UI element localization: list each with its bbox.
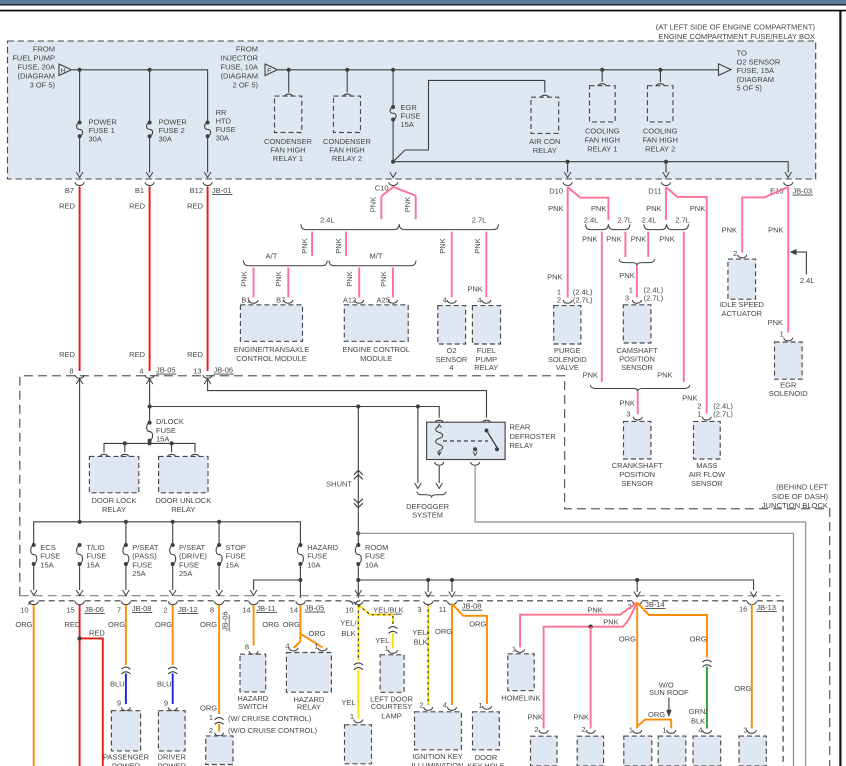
svg-text:1: 1: [629, 286, 633, 295]
svg-text:1: 1: [209, 713, 213, 722]
svg-text:1: 1: [629, 725, 633, 734]
svg-text:JB-08: JB-08: [132, 604, 152, 613]
svg-text:ORG: ORG: [283, 620, 300, 629]
shunt wire: [357, 407, 359, 534]
svg-text:JB-01: JB-01: [212, 186, 232, 195]
svg-text:ORG: ORG: [469, 620, 486, 629]
svg-text:16: 16: [739, 605, 747, 614]
svg-text:ROOM: ROOM: [365, 543, 388, 552]
svg-text:13: 13: [193, 367, 201, 376]
wire RED branch: [80, 638, 103, 766]
svg-text:D10: D10: [549, 187, 563, 196]
svg-text:PNK: PNK: [768, 225, 783, 234]
connector sunroof: [703, 660, 712, 662]
svg-text:15A: 15A: [226, 560, 239, 569]
svg-text:PNK: PNK: [657, 371, 672, 380]
svg-text:SOLENOID: SOLENOID: [769, 389, 808, 398]
svg-text:BLU: BLU: [157, 680, 172, 689]
svg-text:ORG: ORG: [200, 620, 217, 629]
svg-text:ORG: ORG: [108, 620, 125, 629]
wire PNK JB-14 to homelink: [520, 603, 637, 648]
wire ORG sunroof branch: [637, 720, 671, 729]
svg-text:15A: 15A: [86, 560, 99, 569]
svg-text:PNK: PNK: [547, 273, 562, 282]
jb top terminal 4 JB-05: [145, 375, 154, 378]
svg-text:BLK: BLK: [414, 638, 428, 647]
svg-text:2 OF 5): 2 OF 5): [233, 81, 259, 90]
wire ORG stop fuse circuit: [218, 605, 220, 714]
svg-text:FROM: FROM: [33, 45, 55, 54]
svg-text:RED: RED: [89, 629, 105, 638]
svg-text:FUSE, 10A: FUSE, 10A: [220, 63, 258, 72]
component pnk box 2: [577, 736, 603, 766]
pin cruise box: [215, 733, 224, 736]
svg-text:PNK: PNK: [619, 271, 634, 280]
svg-text:30A: 30A: [89, 135, 102, 144]
svg-text:FUSE, 15A: FUSE, 15A: [737, 66, 775, 75]
terminal B12 JB-01: [203, 182, 212, 185]
svg-text:ORG: ORG: [155, 620, 172, 629]
wire PNK D11 branch to mass air flow: [666, 187, 707, 414]
wire terminal 13 to defroster relay: [208, 379, 487, 418]
svg-text:(2.7L): (2.7L): [573, 296, 593, 305]
wire BLU passenger: [125, 674, 127, 705]
wire PNK to A12 pin: [358, 268, 360, 298]
svg-text:8: 8: [69, 367, 73, 376]
svg-text:PNK: PNK: [606, 234, 621, 243]
fuse POWER FUSE 1 30A: [78, 121, 82, 125]
defroster relay contacts: [485, 429, 489, 433]
svg-text:PNK: PNK: [240, 271, 249, 286]
svg-text:PNK: PNK: [300, 238, 309, 253]
exit arrows: [390, 172, 397, 178]
component DRIVER POWER: [158, 711, 185, 751]
fuse P/SEAT DRIVE FUSE 25A: [171, 543, 175, 547]
defroster relay coil: [436, 427, 443, 456]
pin B7: [284, 300, 293, 303]
wire YEL/BLK ignition key illumination: [427, 604, 429, 705]
wire PNK D10 branch: [568, 187, 609, 220]
wire ORG ecs to bottom: [33, 605, 35, 766]
wire drop cooling relay 1: [601, 70, 603, 82]
fuse EGR FUSE 15A: [392, 70, 394, 105]
component IDLE SPEED ACTUATOR: [728, 259, 756, 299]
svg-text:YEL: YEL: [341, 698, 355, 707]
svg-text:PNK: PNK: [345, 271, 354, 286]
svg-text:RED: RED: [59, 202, 75, 211]
svg-text:REAR: REAR: [510, 423, 531, 432]
right window border: [839, 11, 841, 766]
svg-text:FUSE: FUSE: [156, 426, 176, 435]
triangle arrow to O2 sensor fuse: [719, 64, 732, 76]
relay COOLING FAN HIGH RELAY 1: [590, 86, 616, 122]
svg-text:FUSE: FUSE: [86, 552, 106, 561]
svg-text:PNK: PNK: [646, 204, 661, 213]
svg-text:DOOR UNLOCK: DOOR UNLOCK: [155, 496, 211, 505]
svg-text:FUSE: FUSE: [179, 560, 199, 569]
fuse T/LID FUSE 15A: [78, 543, 82, 547]
svg-text:JB-11: JB-11: [256, 604, 275, 613]
wire YEL/BLK branch to left door courtesy lamp: [358, 605, 393, 624]
svg-text:ORG: ORG: [308, 629, 325, 638]
brace 2.7L D10: [608, 224, 630, 229]
svg-text:SIDE OF DASH): SIDE OF DASH): [772, 492, 829, 501]
svg-text:2.7L: 2.7L: [675, 216, 690, 225]
svg-text:IDLE SPEED: IDLE SPEED: [720, 300, 765, 309]
engine compartment fuse/relay box: [8, 41, 816, 179]
svg-text:ORG: ORG: [690, 635, 707, 644]
component CAMSHAFT POSITION SENSOR: [623, 305, 651, 343]
svg-text:1: 1: [350, 712, 354, 721]
pin 4 fuel pump relay: [482, 300, 491, 303]
svg-text:P/SEAT: P/SEAT: [132, 543, 159, 552]
pin air con relay: [540, 95, 549, 98]
svg-text:PNK: PNK: [274, 271, 283, 286]
svg-text:PNK: PNK: [369, 197, 378, 212]
svg-text:PNK: PNK: [334, 238, 343, 253]
svg-text:DRIVER: DRIVER: [158, 753, 187, 762]
svg-text:FUSE: FUSE: [365, 552, 385, 561]
svg-text:2: 2: [209, 726, 213, 735]
module ENGINE CONTROL MODULE: [344, 305, 408, 342]
brace M/T: [329, 261, 416, 266]
svg-text:JB-14: JB-14: [645, 600, 665, 609]
svg-text:D11: D11: [648, 187, 661, 196]
svg-text:15: 15: [66, 606, 74, 615]
svg-text:MASS: MASS: [696, 461, 717, 470]
svg-text:BLU: BLU: [110, 680, 125, 689]
svg-text:DEFROSTER: DEFROSTER: [510, 432, 557, 441]
relay COOLING FAN HIGH RELAY 2: [647, 86, 673, 122]
svg-text:10: 10: [345, 606, 353, 615]
relay CONDENSER FAN HIGH RELAY 2: [334, 96, 361, 132]
svg-text:HAZARD: HAZARD: [307, 543, 338, 552]
svg-text:M/T: M/T: [370, 252, 383, 261]
svg-text:FUSE, 20A: FUSE, 20A: [17, 63, 55, 72]
svg-text:10A: 10A: [307, 560, 320, 569]
svg-text:SENSOR: SENSOR: [621, 479, 653, 488]
svg-text:GRN/: GRN/: [689, 707, 709, 716]
brace 2.4L D10: [585, 224, 608, 229]
svg-text:PURGE: PURGE: [554, 346, 581, 355]
svg-text:JB-06: JB-06: [214, 366, 234, 375]
svg-text:PNK: PNK: [722, 225, 737, 234]
svg-text:PNK: PNK: [582, 234, 597, 243]
wire to air con relay: [393, 80, 545, 161]
svg-text:YEL/: YEL/: [340, 618, 357, 627]
relay REAR DEFROSTER RELAY: [435, 420, 444, 423]
2.4L pointer at EGR wire: [791, 252, 806, 274]
fuse RR HTD FUSE 30A: [206, 121, 210, 125]
svg-text:RELAY: RELAY: [102, 505, 126, 514]
merge brace crankshaft: [590, 385, 689, 391]
pins door lock relay: [100, 454, 109, 457]
svg-text:PNK: PNK: [473, 238, 482, 253]
relay DOOR LOCK RELAY: [89, 456, 138, 492]
svg-text:3: 3: [743, 725, 747, 734]
svg-text:P/SEAT: P/SEAT: [179, 543, 206, 552]
svg-text:ENGINE/TRANSAXLE: ENGINE/TRANSAXLE: [234, 345, 309, 354]
component MASS AIR FLOW SENSOR: [694, 421, 721, 459]
wire ORG hazard switch: [253, 605, 255, 646]
wire PNK to O2 sensor: [451, 232, 453, 298]
svg-text:JB-05: JB-05: [305, 604, 325, 613]
svg-text:FUSE: FUSE: [226, 552, 246, 561]
svg-text:4: 4: [443, 295, 447, 304]
svg-text:9: 9: [117, 699, 121, 708]
pin condenser relay 2: [343, 94, 352, 97]
svg-text:ORG: ORG: [648, 710, 665, 719]
svg-text:ENGINE COMPARTMENT FUSE/RELAY: ENGINE COMPARTMENT FUSE/RELAY BOX: [658, 32, 815, 41]
pin condenser relay 1: [284, 94, 293, 97]
svg-text:A25: A25: [377, 295, 390, 304]
svg-text:CRANKSHAFT: CRANKSHAFT: [612, 461, 663, 470]
wire drop cooling relay 2: [659, 70, 661, 82]
svg-text:O2: O2: [446, 346, 456, 355]
svg-text:PNK: PNK: [603, 618, 618, 627]
wire room feed to right: [358, 533, 793, 766]
svg-text:COOLING: COOLING: [643, 127, 678, 136]
fuse ECS FUSE 15A: [32, 543, 36, 547]
svg-text:(2.7L): (2.7L): [713, 410, 733, 419]
relay AIR CON RELAY: [531, 97, 559, 133]
svg-text:2.7L: 2.7L: [617, 216, 632, 225]
svg-text:2.4L: 2.4L: [320, 216, 335, 225]
wire drop condenser relay 2: [346, 70, 348, 93]
wire ORG JB-14 main: [636, 603, 638, 727]
pins pnk boxes: [539, 730, 548, 733]
svg-text:RED: RED: [59, 350, 75, 359]
svg-text:2: 2: [534, 725, 538, 734]
relay DOOR UNLOCK RELAY: [159, 456, 208, 492]
connector strip left: [29, 601, 34, 605]
svg-text:BLK: BLK: [342, 629, 356, 638]
junctions on F bus: [287, 68, 291, 72]
wire drop condenser relay 1: [288, 70, 290, 93]
wire YEL/BLK room to courtesy: [357, 605, 359, 661]
lamp LEFT DOOR COURTESY LAMP: [380, 655, 404, 693]
svg-text:ORG: ORG: [734, 684, 751, 693]
svg-text:POSITION: POSITION: [619, 470, 655, 479]
component jb13 box: [739, 736, 766, 766]
svg-text:POWER: POWER: [158, 761, 187, 766]
wire PNK camshaft pin: [636, 266, 638, 298]
svg-text:RELAY 2: RELAY 2: [645, 145, 675, 154]
wire PNK D10 to purge solenoid: [567, 187, 569, 297]
wire PNK to fuel pump relay: [485, 232, 487, 298]
svg-text:D/LOCK: D/LOCK: [156, 417, 184, 426]
pin cooling relay 1: [598, 84, 607, 87]
svg-text:RELAY 2: RELAY 2: [332, 154, 362, 163]
wire ORG JB-13: [751, 604, 753, 729]
component PASSENGER POWER: [111, 711, 140, 751]
svg-text:PNK: PNK: [467, 284, 482, 293]
svg-text:3: 3: [626, 409, 630, 418]
svg-text:1: 1: [697, 410, 701, 419]
svg-text:(PASS): (PASS): [132, 552, 157, 561]
svg-text:25A: 25A: [132, 569, 145, 578]
wire drop power fuse 1: [79, 70, 81, 121]
wire RED B12: [207, 187, 209, 372]
svg-text:3: 3: [417, 605, 421, 614]
svg-text:(DIAGRAM: (DIAGRAM: [18, 72, 56, 81]
svg-text:PNK: PNK: [690, 204, 705, 213]
svg-text:3 OF 5): 3 OF 5): [30, 81, 56, 90]
svg-text:SWITCH: SWITCH: [238, 702, 268, 711]
svg-text:PNK: PNK: [587, 606, 602, 615]
fuse ROOM FUSE 10A: [356, 543, 360, 547]
svg-text:15A: 15A: [401, 120, 414, 129]
brace 2.4L: [301, 224, 399, 229]
wire bus from F to O2 triangle: [278, 69, 719, 71]
component O2 SENSOR 4: [438, 306, 466, 344]
svg-text:2.7L: 2.7L: [472, 216, 487, 225]
svg-text:ORG: ORG: [200, 704, 217, 713]
svg-text:AIR FLOW: AIR FLOW: [689, 470, 726, 479]
svg-text:DOOR LOCK: DOOR LOCK: [91, 496, 136, 505]
svg-text:AIR CON: AIR CON: [529, 137, 560, 146]
svg-text:YEL/BLK: YEL/BLK: [373, 606, 403, 615]
svg-text:ORG: ORG: [435, 627, 452, 636]
pin A12: [355, 300, 364, 303]
terminal E10 JB-03: [784, 182, 793, 185]
svg-text:FUEL: FUEL: [477, 346, 496, 355]
svg-text:PNK: PNK: [574, 713, 589, 722]
svg-text:RED: RED: [187, 350, 203, 359]
wire PNK to camshaft merge right: [647, 232, 649, 257]
wire defroster to defogger: [438, 466, 440, 483]
svg-text:B12: B12: [190, 186, 203, 195]
fuse HAZARD FUSE 10A: [298, 543, 302, 547]
svg-text:RED: RED: [129, 202, 145, 211]
wire drop exit D10: [567, 162, 569, 173]
svg-text:2.4L: 2.4L: [584, 216, 599, 225]
fuse POWER FUSE 2 30A: [148, 121, 152, 125]
svg-text:1: 1: [512, 644, 516, 653]
component CRANKSHAFT POSITION SENSOR: [624, 421, 651, 459]
wire PNK to camshaft merge: [624, 232, 626, 257]
wire terminal 8 down to fuse bus: [79, 379, 81, 522]
svg-text:SENSOR: SENSOR: [691, 479, 723, 488]
wire bus from H: [72, 70, 208, 121]
svg-text:CAMSHAFT: CAMSHAFT: [616, 346, 658, 355]
svg-text:SYSTEM: SYSTEM: [412, 511, 443, 520]
component PURGE SOLENOID VALVE: [554, 306, 581, 344]
module ENGINE/TRANSAXLE CONTROL MODULE: [240, 305, 302, 342]
svg-text:(2.7L): (2.7L): [644, 294, 664, 303]
svg-text:COOLING: COOLING: [585, 127, 620, 136]
svg-text:4: 4: [449, 363, 453, 372]
svg-text:ORG: ORG: [619, 635, 636, 644]
brace 2.7L: [399, 224, 498, 229]
svg-text:15A: 15A: [40, 560, 53, 569]
svg-text:JB-08: JB-08: [462, 602, 482, 611]
component pnk box 1: [531, 736, 558, 766]
svg-text:15A: 15A: [156, 435, 169, 444]
svg-text:1: 1: [780, 329, 784, 338]
component grn box: [693, 736, 721, 766]
svg-text:5 OF 5): 5 OF 5): [737, 84, 763, 93]
terminal B1: [145, 182, 154, 185]
fuse D/LOCK FUSE 15A: [149, 407, 151, 422]
svg-text:ACTUATOR: ACTUATOR: [722, 309, 763, 318]
jb top terminal 13 JB-06: [203, 375, 212, 378]
svg-text:ORG: ORG: [262, 620, 279, 629]
pin A25: [388, 300, 397, 303]
svg-text:ECS: ECS: [40, 543, 55, 552]
svg-text:KEY HOLE: KEY HOLE: [467, 762, 504, 766]
svg-text:PNK: PNK: [619, 398, 634, 407]
svg-text:POWER: POWER: [112, 761, 141, 766]
pin cooling relay 2: [656, 84, 665, 87]
svg-text:1: 1: [478, 701, 482, 710]
wire PNK to A25 pin: [392, 268, 394, 298]
wire ORG hazard relay: [294, 605, 301, 648]
component org box 1: [624, 736, 652, 766]
svg-text:SUN ROOF: SUN ROOF: [649, 688, 689, 697]
wire ORG JB-14 right branch: [637, 603, 707, 658]
pin B1: [249, 300, 258, 303]
wire drop power fuse 2: [149, 70, 151, 121]
wires fuses to exits: [33, 564, 35, 590]
hazard fuse distribution: [254, 564, 301, 590]
terminal D11: [662, 182, 671, 185]
svg-text:1: 1: [385, 644, 389, 653]
terminal B7: [75, 182, 84, 185]
svg-text:RED: RED: [129, 350, 145, 359]
brace 2.7L D11: [667, 224, 689, 229]
svg-text:B1: B1: [241, 295, 250, 304]
svg-text:H: H: [61, 67, 66, 74]
svg-text:(W/ CRUISE CONTROL): (W/ CRUISE CONTROL): [228, 714, 312, 723]
svg-text:4: 4: [139, 367, 143, 376]
svg-text:PNK: PNK: [438, 238, 447, 253]
component HAZARD SWITCH: [240, 654, 266, 692]
arrows at box bottom: [76, 172, 83, 178]
svg-text:2: 2: [581, 725, 585, 734]
svg-text:INJECTOR: INJECTOR: [221, 54, 259, 63]
defroster relay linkage: [443, 440, 488, 442]
svg-text:JB-06: JB-06: [84, 605, 104, 614]
wire drop exit D11: [665, 162, 667, 173]
svg-text:10A: 10A: [365, 560, 378, 569]
svg-text:PASSENGER: PASSENGER: [103, 753, 150, 762]
wire RED B1: [149, 187, 151, 372]
svg-text:(BEHIND LEFT: (BEHIND LEFT: [776, 483, 828, 492]
svg-text:(DIAGRAM: (DIAGRAM: [737, 75, 775, 84]
svg-text:1: 1: [662, 725, 666, 734]
relay CONDENSER FAN HIGH RELAY 1: [275, 96, 302, 132]
relay FUEL PUMP RELAY: [472, 306, 500, 344]
wire PNK JB-14 second: [544, 603, 638, 729]
triangle arrow H: [59, 64, 72, 76]
svg-text:A/T: A/T: [266, 252, 278, 261]
svg-text:YEL/: YEL/: [412, 628, 429, 637]
svg-text:8: 8: [210, 606, 214, 615]
svg-text:25A: 25A: [179, 569, 192, 578]
wire GRN/BLK: [706, 667, 708, 729]
wire PNK C10 split: [381, 187, 415, 196]
svg-text:PNK: PNK: [591, 204, 606, 213]
wire BLU driver: [172, 674, 174, 705]
wire PNK to B1 pin: [253, 268, 255, 298]
wire RED t/lid: [79, 605, 81, 766]
wire ORG passenger power: [125, 605, 127, 665]
wire PNK to B7 pin: [287, 268, 289, 298]
wire ORG terminal 11: [451, 604, 453, 705]
svg-text:4: 4: [443, 701, 447, 710]
top browser bar: [0, 0, 846, 4]
